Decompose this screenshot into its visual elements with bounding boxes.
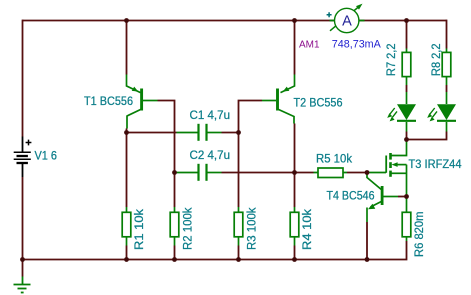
node gate [365, 170, 370, 175]
svg-text:R7 2,2: R7 2,2 [386, 44, 398, 77]
wire T2 emitter column [294, 21, 296, 75]
svg-text:A: A [342, 14, 352, 30]
wire R3 bottom stub [238, 246, 240, 260]
wire R4 top column [294, 173, 296, 208]
node R3 bottom [236, 257, 241, 262]
channel bar drain [389, 153, 392, 160]
wire T4 emitter column [366, 222, 368, 260]
gate wire [367, 172, 386, 174]
capacitor C1 [177, 124, 222, 141]
svg-text:V1 6: V1 6 [35, 151, 58, 163]
svg-text:R6 820m: R6 820m [414, 212, 426, 258]
wire T1 collector stub [126, 129, 128, 133]
wire T1 emitter column [126, 21, 128, 75]
resistor R5 [314, 168, 348, 178]
svg-text:C1 4,7u: C1 4,7u [190, 110, 231, 122]
transistor T4 [367, 173, 398, 223]
wire R3 top column [238, 133, 240, 208]
wire T4 base stub [398, 196, 407, 198]
wire T1 base to C2 node [158, 101, 175, 173]
node R1 bottom [124, 257, 129, 262]
svg-text:C2 4,7u: C2 4,7u [190, 150, 231, 162]
gate electrode [385, 156, 387, 173]
channel bar body [389, 162, 392, 168]
svg-text:R8 2,2: R8 2,2 [431, 44, 443, 77]
body arrow [396, 164, 407, 166]
wire T2 base column [239, 101, 263, 133]
svg-text:T3 IRFZ44: T3 IRFZ44 [409, 159, 463, 171]
wire LED cathode rail [407, 132, 447, 140]
LED D1 [387, 92, 416, 132]
svg-text:T2 BC556: T2 BC556 [294, 97, 343, 109]
capacitor C2 [175, 164, 222, 181]
wire D1 anode stub [406, 85, 408, 92]
node top R7 [404, 18, 409, 23]
wire D1 cathode stub [406, 132, 408, 140]
node R4 bottom [292, 257, 297, 262]
channel bar source [389, 171, 392, 177]
node source R6 [404, 194, 409, 199]
resistor R1 [122, 207, 131, 246]
wire ground stem [22, 260, 24, 277]
node C2 left [172, 170, 177, 175]
wire D2 anode stub [446, 85, 448, 92]
resistor R7 [402, 49, 411, 86]
wire battery column lower [22, 177, 24, 260]
source lead [392, 172, 407, 174]
wire C1 row left [127, 132, 177, 134]
wire T2 collector column [294, 124, 296, 173]
wire R5 right [347, 172, 367, 174]
transistor T2 [262, 75, 295, 124]
resistor R2 [170, 207, 179, 246]
svg-text:R2 100k: R2 100k [183, 207, 195, 250]
ground [14, 277, 31, 293]
wire R2 bottom stub [174, 246, 176, 260]
wire C1 row right [222, 132, 239, 134]
wire C2 row right [222, 172, 295, 174]
svg-text:R1 10k: R1 10k [134, 209, 146, 250]
svg-text:T1 BC556: T1 BC556 [84, 96, 133, 108]
node top T1 [124, 18, 129, 23]
svg-text:748,73mA: 748,73mA [332, 39, 382, 51]
node ground [20, 257, 25, 262]
wire R1 bottom stub [126, 246, 128, 260]
wire R1 top column [126, 133, 128, 208]
resistor R8 [442, 49, 451, 86]
node LED join [404, 137, 409, 142]
wire R4 bottom stub [294, 246, 296, 260]
transistor T1 [127, 75, 158, 129]
wire bottom rail [23, 241, 407, 260]
wire battery column upper [22, 20, 24, 137]
drain lead [392, 141, 407, 156]
resistor R3 [234, 207, 243, 246]
LED D2 [427, 92, 456, 132]
ammeter AM1 [327, 4, 365, 33]
node C1 left [124, 130, 129, 135]
wire top rail [23, 20, 447, 22]
node top T2 [292, 18, 297, 23]
mosfet T3 [367, 141, 407, 197]
battery V1 [14, 137, 32, 178]
svg-text:R4 10k: R4 10k [302, 209, 314, 250]
svg-text:T4 BC546: T4 BC546 [327, 191, 375, 203]
wire R5 left [295, 172, 314, 174]
node R2 bottom [172, 257, 177, 262]
wire R7 top stub [406, 21, 408, 49]
node C2 right [292, 170, 297, 175]
node T4 emitter bottom [365, 257, 370, 262]
svg-text:R3 100k: R3 100k [247, 207, 259, 250]
resistor R4 [290, 207, 299, 246]
node C1 right [236, 130, 241, 135]
wire R8 top stub [446, 20, 448, 49]
svg-text:AM1: AM1 [299, 40, 320, 51]
wire R2 top column [174, 173, 176, 208]
resistor R6 [402, 199, 411, 242]
svg-text:R5 10k: R5 10k [316, 154, 352, 166]
